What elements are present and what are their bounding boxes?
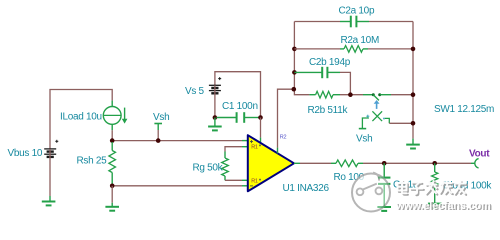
svg-text:Vsh: Vsh xyxy=(356,133,372,144)
junction Vs/C1/ground xyxy=(213,115,218,120)
svg-text:R1: R1 xyxy=(251,178,258,184)
switch control X symbol xyxy=(372,111,382,121)
svg-text:U1 INA326: U1 INA326 xyxy=(283,183,330,194)
wire U1 output xyxy=(294,162,300,164)
junction C2b right/R2b rail xyxy=(348,92,353,97)
ground under Vs/C1 xyxy=(214,118,216,127)
wire switch control to right rail xyxy=(389,122,413,124)
wire R2 pin of U1 up to feedback node xyxy=(277,148,279,154)
junction R2a right xyxy=(411,47,416,52)
capacitor C1 xyxy=(217,112,261,123)
junction C2b left xyxy=(292,70,297,75)
junction R2 pin/feedback left xyxy=(292,87,297,92)
ground under Co xyxy=(377,207,391,211)
switch actuation arrow xyxy=(376,103,378,109)
wire Ro to output terminal xyxy=(363,162,471,164)
junction R2a left xyxy=(292,47,297,52)
switch control left bracket / Vsh terminal xyxy=(362,118,369,128)
junction switch rail right xyxy=(411,92,416,97)
ground under feedback rail xyxy=(406,145,420,149)
ground bars under Vs/C1 xyxy=(208,127,222,131)
svg-text:ILoad 10u: ILoad 10u xyxy=(60,112,102,123)
svg-text:C1 100n: C1 100n xyxy=(222,101,258,112)
switch SW1 xyxy=(363,94,373,96)
ground under Rload xyxy=(428,204,442,208)
resistor R2a xyxy=(294,48,340,50)
capacitor C2a xyxy=(294,21,340,23)
svg-text:Vbus 10: Vbus 10 xyxy=(8,148,43,159)
watermark text dianzifashaoyou xyxy=(399,182,467,195)
svg-text:www.elecfans.com: www.elecfans.com xyxy=(395,200,491,212)
svg-text:Vsh: Vsh xyxy=(153,112,169,123)
node B junction Rsh/ground/rail xyxy=(110,184,115,189)
resistor Ro xyxy=(331,162,336,164)
wire feedback right rail xyxy=(412,22,414,139)
junction Rload tap xyxy=(432,161,437,166)
svg-text:R1: R1 xyxy=(251,144,258,150)
capacitor C2b xyxy=(294,67,340,78)
wire bottom rail to op-amp Vin- xyxy=(112,185,242,187)
wire ILoad to node A xyxy=(111,130,113,140)
svg-text:Rsh 25: Rsh 25 xyxy=(77,156,108,167)
resistor Rsh xyxy=(111,142,113,151)
svg-text:C2b 194p: C2b 194p xyxy=(309,57,351,68)
pin marks beside R1 labels xyxy=(259,145,261,147)
wire top-left loop Vbus to ILoad xyxy=(50,90,112,149)
junction Vsh stub on top rail xyxy=(156,138,161,143)
node A junction ILoad/Rsh/rail xyxy=(110,138,115,143)
junction C1/V+ pin xyxy=(258,115,263,120)
wire Vs+ over to op-amp V+ xyxy=(215,72,261,118)
capacitor Co xyxy=(378,163,390,207)
battery Vs 5 xyxy=(209,77,221,93)
wire feedback left vertical xyxy=(294,22,309,95)
svg-text:R2: R2 xyxy=(280,135,287,141)
wire Vs- down to C1 node xyxy=(214,85,216,117)
switch control right bracket xyxy=(385,118,389,123)
ground under Vbus xyxy=(42,202,56,206)
wire Rsh node to ground xyxy=(111,186,113,203)
junction Co tap xyxy=(382,161,387,166)
wire Vbus bottom to ground xyxy=(49,149,51,196)
battery Vbus xyxy=(44,140,58,157)
ground under Rsh xyxy=(105,207,119,211)
svg-text:Vout: Vout xyxy=(469,149,490,160)
junction control line/right rail xyxy=(411,121,416,126)
resistor R2b xyxy=(309,94,315,96)
wire V+ supply pin of U1 xyxy=(260,118,262,138)
wire Rg bottom jog to R1 pin xyxy=(225,179,242,181)
pin polarity marks xyxy=(250,140,253,186)
capacitor Co redrawn over watermark xyxy=(378,163,390,207)
voltage pin Vsh xyxy=(157,130,159,141)
watermark logo circle xyxy=(352,173,390,212)
wire top rail to op-amp Vin+ xyxy=(112,140,242,142)
ground under Co redrawn xyxy=(377,207,391,211)
op-amp U1 INA326 xyxy=(248,135,294,191)
svg-text:R2a 10M: R2a 10M xyxy=(341,35,379,46)
svg-text:Vs 5: Vs 5 xyxy=(185,86,205,97)
output terminal Vout xyxy=(471,162,475,164)
svg-text:C2a 10p: C2a 10p xyxy=(339,5,375,16)
svg-text:SW1 12.125m: SW1 12.125m xyxy=(434,104,494,115)
svg-text:R2b 511k: R2b 511k xyxy=(308,105,349,116)
wire Rg top jog to R1 pin xyxy=(225,147,242,152)
resistor Rg xyxy=(222,158,229,176)
resistor Rload xyxy=(434,163,436,172)
svg-text:Rg 50k: Rg 50k xyxy=(193,162,224,173)
current source ILoad xyxy=(103,101,124,125)
